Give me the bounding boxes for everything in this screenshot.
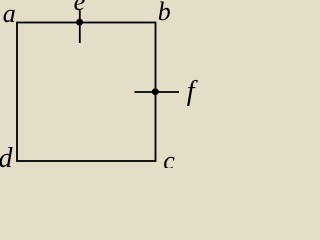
svg-text:d: d xyxy=(0,143,14,168)
svg-text:a: a xyxy=(3,0,16,28)
svg-text:b: b xyxy=(158,0,171,26)
node f stub xyxy=(135,91,180,93)
svg-text:c: c xyxy=(163,146,175,168)
node e dot xyxy=(76,19,83,26)
svg-text:e: e xyxy=(74,0,86,16)
square abcd xyxy=(17,23,156,162)
node e stub xyxy=(79,10,81,43)
node f dot xyxy=(152,88,159,95)
